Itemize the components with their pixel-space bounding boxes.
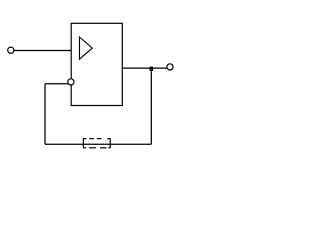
wire output bbox=[122, 67, 166, 69]
wire feedback horizontal to block bbox=[45, 83, 69, 85]
input terminal bbox=[8, 47, 14, 53]
wire feedback left vertical bbox=[44, 84, 46, 144]
wire input bbox=[14, 50, 71, 52]
wire feedback bottom horizontal bbox=[45, 143, 151, 145]
junction output node bbox=[150, 67, 153, 71]
wire feedback right vertical bbox=[150, 68, 152, 144]
feedback terminal on block bbox=[68, 79, 74, 85]
amplifier block U1 bbox=[71, 23, 122, 105]
output terminal bbox=[167, 64, 173, 70]
feedback network dashed box bbox=[83, 139, 110, 148]
op-amp triangle bbox=[80, 37, 93, 59]
